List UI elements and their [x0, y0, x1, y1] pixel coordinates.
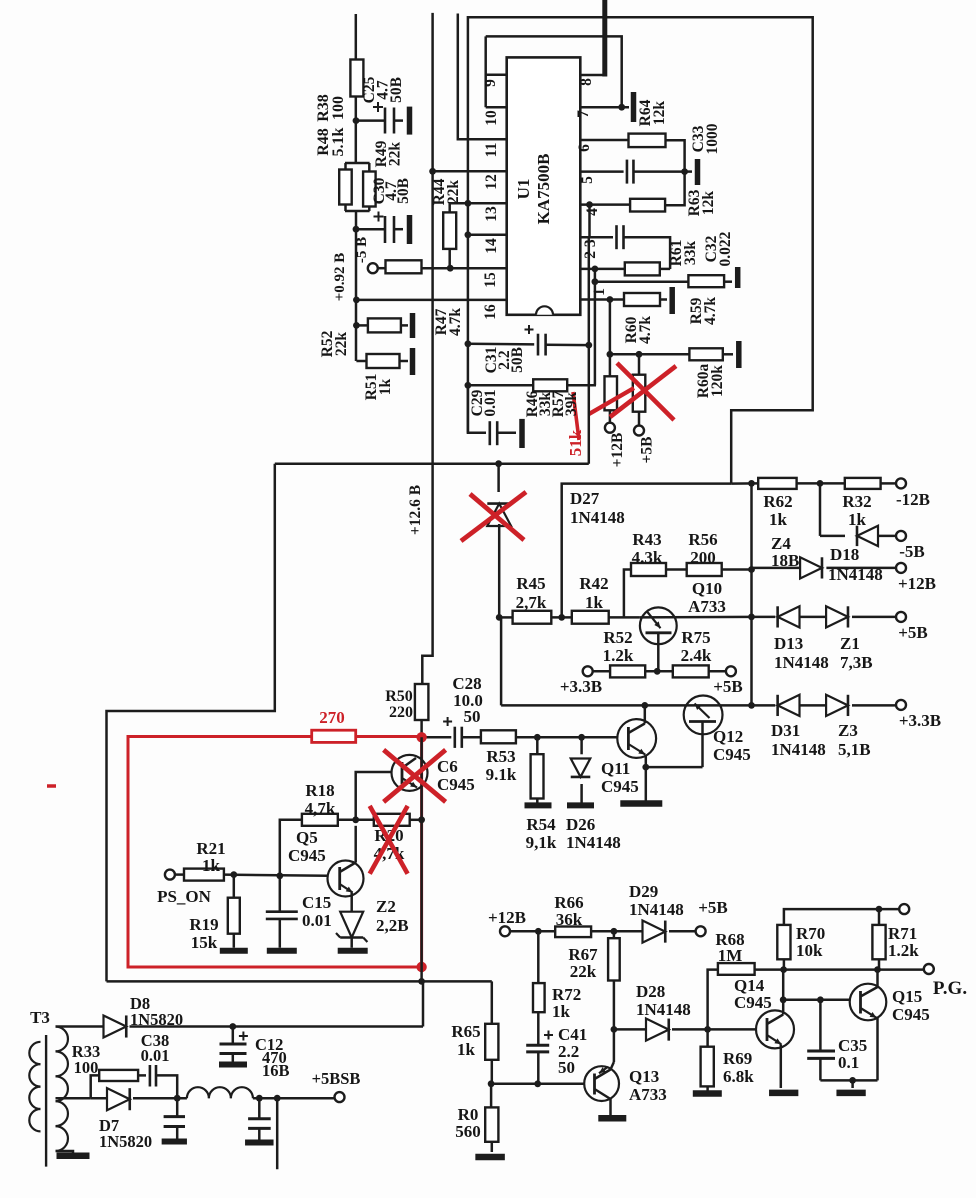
diode Z4	[752, 557, 897, 578]
label C32 0.022	[703, 231, 734, 266]
svg-text:22k: 22k	[387, 142, 404, 167]
wire pin6 row	[580, 139, 629, 142]
resistor R68	[718, 963, 784, 975]
svg-text:50: 50	[558, 1058, 575, 1077]
wire R43 corner	[624, 570, 631, 618]
svg-text:1N5820: 1N5820	[130, 1010, 183, 1029]
node R65 bottom	[488, 1080, 495, 1087]
label D13 1N4148	[774, 634, 829, 672]
transistor Q10	[640, 607, 752, 671]
terminal +5BSB	[312, 1069, 361, 1102]
diode D31	[778, 695, 827, 716]
pin 5 label	[579, 176, 596, 184]
label D7 1N5820	[99, 1116, 152, 1151]
ground R54	[525, 802, 552, 808]
label R70 10k	[796, 924, 825, 960]
svg-text:22k: 22k	[445, 180, 462, 205]
resistor R21	[175, 869, 328, 881]
svg-text:16: 16	[482, 304, 499, 320]
svg-text:0.01: 0.01	[302, 911, 332, 930]
resistor R60	[624, 293, 667, 306]
resistor R75	[673, 665, 727, 677]
svg-text:R65: R65	[451, 1022, 480, 1041]
ground Q14	[769, 1090, 798, 1097]
svg-text:Q5: Q5	[296, 828, 318, 847]
svg-text:1.2k: 1.2k	[888, 941, 919, 960]
svg-text:R69: R69	[723, 1049, 752, 1068]
label R67 22k	[568, 945, 598, 981]
label R56 200	[688, 530, 717, 567]
node R45 left	[496, 614, 503, 621]
svg-text:D18: D18	[830, 545, 859, 564]
resistor R61	[625, 262, 670, 275]
svg-text:R42: R42	[579, 574, 608, 593]
svg-text:+5B: +5B	[713, 677, 743, 696]
svg-text:4,7k: 4,7k	[305, 799, 336, 818]
terminal +12B	[605, 423, 626, 468]
svg-text:50B: 50B	[395, 178, 412, 204]
wire pin1 row	[580, 296, 624, 303]
svg-text:12k: 12k	[651, 101, 668, 126]
label Q15 C945	[892, 987, 930, 1024]
capacitor C35	[807, 1000, 835, 1081]
capacitor C40 output filter	[164, 1098, 185, 1139]
pin 10 label	[483, 110, 500, 126]
label C28 10.0 50	[452, 674, 483, 726]
ground C30	[407, 215, 413, 244]
wire D8 row up to PS net	[422, 981, 423, 1026]
label C31 2.2 50B	[483, 347, 526, 374]
label R0 560	[455, 1105, 481, 1141]
svg-text:+12B: +12B	[609, 433, 626, 468]
capacitor C15	[266, 872, 298, 947]
svg-text:C945: C945	[734, 993, 772, 1012]
svg-text:9.1k: 9.1k	[486, 765, 517, 784]
svg-text:-12B: -12B	[896, 490, 930, 509]
svg-text:1N4148: 1N4148	[774, 653, 829, 672]
svg-text:5,1B: 5,1B	[838, 740, 871, 759]
resistor R62	[731, 478, 845, 489]
wire pin7 row	[580, 104, 629, 111]
svg-text:51k: 51k	[566, 429, 585, 456]
pin 16 label	[482, 304, 499, 320]
label D31 1N4148	[771, 721, 826, 759]
label D29 1N4148	[629, 882, 684, 919]
svg-text:D27: D27	[570, 489, 600, 508]
svg-text:+5B: +5B	[698, 898, 728, 917]
svg-text:4.7k: 4.7k	[637, 316, 654, 344]
resistor R58 crossed	[633, 354, 646, 426]
resistor R71	[872, 909, 885, 970]
svg-text:R53: R53	[486, 747, 515, 766]
svg-text:R54: R54	[526, 815, 556, 834]
svg-text:D13: D13	[774, 634, 803, 653]
ground Q15 emitter	[836, 1090, 865, 1097]
wire R38 top lead	[355, 14, 358, 60]
svg-text:KA7500B: KA7500B	[534, 154, 553, 225]
transistor Q13	[584, 1029, 619, 1115]
transformer T3 secondary winding	[56, 1027, 91, 1154]
svg-text:9,1k: 9,1k	[526, 833, 557, 852]
svg-text:100: 100	[74, 1058, 99, 1077]
label R48 5.1k	[315, 127, 347, 156]
label Q5 C945	[288, 828, 326, 865]
svg-text:50: 50	[464, 707, 481, 726]
svg-text:C945: C945	[713, 745, 751, 764]
red cross on D27	[461, 492, 526, 541]
resistor R64	[629, 134, 685, 172]
svg-text:50B: 50B	[388, 77, 405, 103]
diode D26	[571, 737, 591, 803]
resistor R18	[280, 814, 374, 876]
diode D8	[70, 1015, 423, 1037]
label Z2 2.2B	[376, 897, 409, 935]
svg-text:Z3: Z3	[838, 721, 858, 740]
svg-text:1k: 1k	[202, 856, 221, 875]
wire pin13 row	[465, 200, 507, 207]
svg-text:15k: 15k	[191, 933, 218, 952]
svg-text:6.8k: 6.8k	[723, 1067, 754, 1086]
pin 15 label	[482, 272, 499, 288]
svg-text:1N5820: 1N5820	[99, 1132, 152, 1151]
terminal +3.3B right	[896, 700, 941, 730]
svg-text:22k: 22k	[570, 962, 597, 981]
svg-text:50B: 50B	[509, 347, 526, 373]
resistor R53	[481, 730, 617, 743]
resistor R32	[845, 478, 897, 489]
label D26 1N4148	[566, 815, 621, 852]
label R71 1.2k	[888, 924, 919, 960]
svg-text:16B: 16B	[262, 1061, 290, 1080]
ground C12	[219, 1062, 247, 1068]
diode Z1	[826, 606, 896, 627]
capacitor C29	[468, 385, 516, 445]
terminal +12B right	[896, 563, 936, 593]
wire pin3 row	[580, 236, 613, 239]
wire C6 base	[352, 772, 391, 823]
capacitor C41	[526, 1031, 553, 1084]
label R21 1k	[196, 839, 225, 875]
ground pin5 net	[685, 159, 698, 185]
svg-text:R43: R43	[632, 530, 661, 549]
terminal +5B bottom	[696, 898, 728, 936]
label R52 22k	[319, 330, 350, 357]
svg-text:R18: R18	[305, 781, 334, 800]
wire pin9 pin10 bracket	[486, 36, 507, 107]
svg-text:4.3k: 4.3k	[632, 548, 663, 567]
label Z4 18B	[771, 534, 799, 570]
resistor R46 R57 row	[465, 379, 597, 391]
label D8 1N5820	[130, 994, 183, 1029]
wire pin3 net down to bus	[588, 237, 591, 464]
capacitor C12	[220, 1027, 248, 1063]
svg-text:1: 1	[591, 288, 608, 296]
svg-text:Q10: Q10	[692, 579, 722, 598]
resistor R49 parallel box	[345, 163, 376, 207]
label R59 4.7k	[688, 297, 719, 325]
wire PG row	[780, 966, 924, 973]
label R45 2.7k	[516, 574, 547, 612]
svg-text:A733: A733	[629, 1085, 667, 1104]
svg-text:200: 200	[690, 548, 716, 567]
svg-text:Q12: Q12	[713, 727, 743, 746]
ground R59	[735, 267, 741, 288]
svg-text:T3: T3	[30, 1008, 50, 1027]
wire bus left drop	[107, 464, 275, 982]
resistor R72	[533, 931, 545, 1045]
svg-text:C6: C6	[437, 757, 458, 776]
transformer T3 label	[30, 1008, 50, 1027]
label Q10 A733	[688, 579, 726, 616]
svg-text:1k: 1k	[377, 378, 394, 395]
transistor Q12	[646, 696, 723, 768]
svg-text:+12.6 B: +12.6 B	[407, 485, 424, 535]
svg-text:Z2: Z2	[376, 897, 396, 916]
label +0.92 B	[332, 253, 348, 302]
resistor R0	[485, 1084, 498, 1152]
svg-text:1k: 1k	[552, 1002, 571, 1021]
ground R69	[693, 1090, 722, 1097]
wire thick pin8 stub	[602, 0, 607, 77]
label C25 4.7 50B	[361, 76, 405, 103]
svg-text:39k: 39k	[563, 392, 580, 417]
wire pin12 row	[433, 170, 507, 173]
resistor R43	[631, 563, 687, 576]
svg-text:0.01: 0.01	[482, 389, 499, 416]
pin 14 label	[483, 238, 500, 254]
svg-text:R56: R56	[688, 530, 717, 549]
label R18 4.7k	[305, 781, 336, 818]
terminal PG top	[899, 904, 909, 914]
label Q12 C945	[713, 727, 751, 764]
label R63 12k	[686, 189, 717, 216]
ground C42	[245, 1140, 273, 1146]
transistor Q15	[850, 970, 887, 1081]
resistor R56	[687, 563, 752, 576]
capacitor C38	[150, 1065, 177, 1098]
diode D28	[646, 1019, 708, 1041]
svg-text:PS_ON: PS_ON	[157, 887, 212, 906]
svg-text:11: 11	[483, 143, 500, 158]
svg-text:D31: D31	[771, 721, 800, 740]
capacitor C33	[627, 160, 688, 184]
pin 8 label	[578, 78, 595, 86]
svg-text:9: 9	[482, 79, 499, 87]
svg-text:560: 560	[455, 1122, 481, 1141]
wire +12B row	[510, 928, 556, 935]
wire +12.6B line pin12	[422, 13, 436, 684]
label U1 KA7500B	[514, 154, 553, 225]
svg-text:+5B: +5B	[639, 437, 656, 464]
label Q11 C945	[601, 759, 639, 796]
diode D27 crossed	[487, 464, 511, 618]
label R19 15k	[189, 915, 218, 952]
label C33 1000	[690, 123, 721, 154]
svg-text:+3.3B: +3.3B	[899, 711, 941, 730]
label R54 9.1k	[526, 815, 557, 852]
svg-text:120k: 120k	[709, 365, 726, 397]
svg-text:270: 270	[319, 708, 345, 727]
wire pin5 row	[580, 170, 623, 173]
svg-text:0.022: 0.022	[717, 231, 734, 266]
wire top PG row	[784, 906, 900, 925]
red dash mark	[47, 784, 56, 788]
wire pin16 row	[356, 299, 506, 302]
resistor R42	[572, 611, 640, 624]
wire C6 net vertical	[418, 737, 425, 981]
wire R32 node down	[820, 483, 845, 536]
svg-text:4: 4	[584, 208, 601, 216]
label R32 1k	[842, 492, 871, 529]
wire +0.92B vertical	[353, 262, 360, 361]
label Z3 5.1B	[838, 721, 871, 759]
label D28 1N4148	[636, 982, 691, 1019]
resistor R44	[443, 203, 468, 268]
resistor R60a	[689, 348, 733, 360]
svg-text:2.4k: 2.4k	[681, 646, 712, 665]
label Q14 C945	[734, 976, 772, 1012]
svg-text:+12B: +12B	[488, 908, 526, 927]
svg-text:C945: C945	[437, 775, 475, 794]
label R72 1k	[552, 985, 581, 1021]
terminal +5B right2	[896, 612, 928, 642]
resistor R38	[350, 60, 363, 97]
wire Q15 base row	[783, 996, 850, 1003]
svg-text:-5B: -5B	[899, 542, 925, 561]
label R52 1.2k	[603, 628, 634, 665]
wire border outline	[468, 17, 813, 483]
svg-text:+5B: +5B	[898, 623, 928, 642]
resistor R65	[485, 981, 498, 1083]
label R64 12k	[637, 99, 668, 126]
wire +3.3B row	[501, 702, 775, 709]
wire pin4 to pin3	[588, 205, 591, 238]
pin 2 3 label	[582, 239, 599, 259]
svg-text:13: 13	[483, 206, 500, 222]
pin 4 label	[584, 208, 601, 216]
label C12 470 16B	[255, 1035, 290, 1080]
wire Q15 emitter return	[820, 1077, 877, 1088]
wire pin11 feed	[458, 14, 507, 140]
svg-text:D29: D29	[629, 882, 658, 901]
resistor -5B series	[378, 260, 422, 273]
label R42 1k	[579, 574, 608, 612]
svg-text:33k: 33k	[682, 241, 699, 266]
svg-text:1N4148: 1N4148	[570, 508, 625, 527]
svg-text:C945: C945	[288, 846, 326, 865]
label C6 C945	[437, 757, 475, 794]
red cross on C6	[384, 750, 446, 802]
label Z1 7.3B	[840, 634, 873, 672]
svg-text:15: 15	[482, 272, 499, 288]
label R62 1k	[763, 492, 792, 529]
pin 6 label	[576, 144, 593, 152]
node C31 left	[465, 340, 472, 347]
inductor L1	[187, 1087, 335, 1101]
pin 9 label	[482, 79, 499, 87]
svg-text:1N4148: 1N4148	[566, 833, 621, 852]
label R61 33k	[668, 240, 699, 267]
svg-text:14: 14	[483, 238, 500, 254]
svg-text:10: 10	[483, 110, 500, 126]
label C29 0.01	[469, 389, 499, 416]
resistor R45	[499, 611, 572, 624]
wire parallel block bottom	[345, 205, 370, 263]
svg-text:+12B: +12B	[898, 574, 936, 593]
resistor R50	[415, 684, 429, 733]
svg-text:0.01: 0.01	[141, 1046, 170, 1065]
terminal -5B right	[896, 531, 925, 561]
svg-text:4.7k: 4.7k	[702, 297, 719, 325]
terminal +5B mid	[713, 666, 743, 696]
terminal +12B bottom	[488, 908, 526, 936]
red label 51k	[566, 429, 585, 456]
label D18 1N4148	[828, 545, 883, 584]
resistor R52	[356, 318, 408, 332]
ground Q13	[598, 1115, 626, 1122]
label R49 22k	[373, 140, 404, 167]
svg-text:C15: C15	[302, 893, 331, 912]
label R60a 120k	[695, 364, 726, 399]
terminal -5B	[354, 237, 378, 273]
label +12.6 B	[407, 485, 424, 535]
label R66 36k	[554, 893, 583, 929]
svg-text:P.G.: P.G.	[933, 978, 967, 999]
svg-text:7,3B: 7,3B	[840, 653, 873, 672]
wire pin2 net down to R46 row	[594, 282, 597, 386]
svg-text:2,7k: 2,7k	[516, 593, 547, 612]
capacitor C28	[422, 717, 481, 748]
svg-text:1000: 1000	[704, 123, 721, 154]
label C35 0.1	[838, 1036, 867, 1072]
svg-text:R19: R19	[189, 915, 218, 934]
node C28 left	[418, 734, 425, 741]
svg-text:Q15: Q15	[892, 987, 922, 1006]
terminal -12B	[896, 478, 930, 509]
diode Z3	[826, 695, 896, 716]
label R20 4.7k	[374, 826, 405, 863]
diode D29	[643, 921, 697, 943]
svg-text:8: 8	[578, 78, 595, 86]
transistor Q5	[328, 826, 364, 912]
svg-text:5.1k: 5.1k	[330, 127, 347, 156]
red node top	[416, 732, 426, 742]
wire R68 net vertical	[704, 970, 718, 1033]
svg-text:220: 220	[389, 704, 413, 721]
label D27 1N4148	[570, 489, 625, 527]
transformer T3 primary winding	[29, 1042, 40, 1132]
svg-text:+3.3B: +3.3B	[560, 677, 602, 696]
wire main bus	[275, 460, 589, 467]
wire D28 row	[614, 1028, 648, 1031]
label R38 100	[315, 94, 347, 122]
capacitor C42 output filter	[248, 1098, 271, 1140]
svg-text:2,2B: 2,2B	[376, 916, 409, 935]
red slash on R57	[589, 388, 634, 414]
red cross on R20	[370, 806, 408, 874]
pin 11 label	[483, 143, 500, 158]
transistor Q14	[708, 970, 794, 1088]
ground T3	[57, 1152, 90, 1159]
wire pin2 to R59	[592, 269, 599, 285]
resistor R59	[595, 275, 732, 287]
wire D27 net down	[500, 617, 503, 705]
svg-text:10k: 10k	[796, 941, 823, 960]
ground Q11	[620, 800, 662, 807]
svg-text:7: 7	[575, 110, 592, 118]
resistor R69	[701, 1029, 714, 1090]
ground C15	[267, 948, 297, 954]
